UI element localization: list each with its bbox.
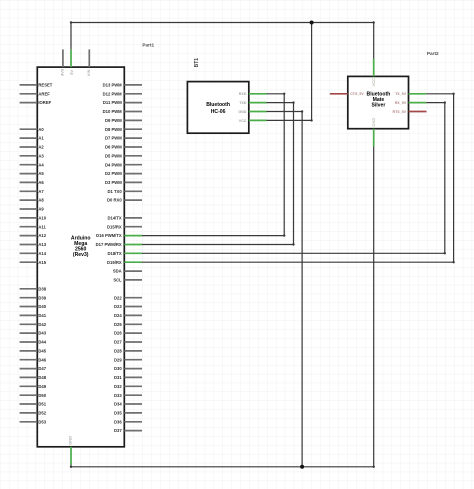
svg-text:D11 PWM: D11 PWM	[103, 100, 122, 105]
pin D11 PWM (Part1 right)	[103, 100, 142, 105]
pin A11 (Part1 left)	[20, 224, 47, 229]
svg-text:D29: D29	[114, 357, 122, 362]
svg-text:D45: D45	[38, 348, 46, 353]
svg-text:TX_5V: TX_5V	[395, 92, 407, 96]
pin SCL (Part1 right)	[113, 277, 142, 282]
wire net GND: Arduino GND pin down, right along bottom rail, up to Part2 GND	[70, 146, 375, 468]
svg-text:D28: D28	[114, 348, 122, 353]
pin D49 (Part1 left)	[20, 384, 47, 389]
pin D26 (Part1 right)	[114, 331, 142, 336]
wire Part2 RX_5V to Part1 D18/TX	[142, 101, 446, 254]
svg-text:D30: D30	[114, 366, 122, 371]
svg-text:D41: D41	[38, 313, 46, 318]
svg-text:D3 PWM: D3 PWM	[105, 180, 122, 185]
pin RXD (BT1)	[239, 92, 267, 96]
pin AREF (Part1 left)	[20, 91, 51, 96]
svg-text:D7 PWM: D7 PWM	[105, 136, 122, 141]
pin D18/TX (Part1 right)	[107, 251, 142, 256]
junction on GND rail at x=302.1	[300, 465, 304, 469]
pin 3V3 (Part1 top)	[60, 49, 65, 76]
svg-text:SDA: SDA	[113, 269, 122, 274]
pin D48 (Part1 left)	[20, 375, 47, 380]
svg-text:VCC: VCC	[239, 119, 247, 123]
svg-text:AREF: AREF	[38, 91, 50, 96]
pin A4 (Part1 left)	[20, 162, 45, 167]
pin A1 (Part1 left)	[20, 136, 45, 141]
svg-text:3V3: 3V3	[60, 68, 65, 76]
svg-text:D47: D47	[38, 366, 46, 371]
pin IOREF (Part1 left)	[20, 100, 52, 105]
wire BT1 VCC to 5V rail (up at x=311.6)	[267, 23, 313, 122]
pin A5 (Part1 left)	[20, 171, 45, 176]
svg-text:A10: A10	[38, 215, 46, 220]
pin D39 (Part1 left)	[20, 295, 47, 300]
svg-text:D22: D22	[114, 295, 122, 300]
svg-text:D19/RX: D19/RX	[107, 260, 122, 265]
pin D36 (Part1 right)	[114, 419, 142, 424]
pin D32 (Part1 right)	[114, 384, 142, 389]
pin A8 (Part1 left)	[20, 198, 45, 203]
pin D24 (Part1 right)	[114, 313, 142, 318]
pin D6 PWM (Part1 right)	[105, 145, 142, 150]
pin D12 PWM (Part1 right)	[103, 91, 142, 96]
svg-text:D33: D33	[114, 393, 122, 398]
pin D42 (Part1 left)	[20, 322, 47, 327]
pin D8 PWM (Part1 right)	[105, 127, 142, 132]
svg-text:A3: A3	[38, 153, 44, 158]
component BT1: Bluetooth HC-06	[187, 82, 266, 134]
svg-text:D23: D23	[114, 304, 122, 309]
svg-text:D37: D37	[114, 428, 122, 433]
pin SDA (Part1 right)	[113, 269, 142, 274]
pin TXD (BT1)	[239, 101, 266, 105]
svg-text:A1: A1	[38, 136, 44, 141]
wire net 5V: Arduino 5V pin up, right along top rail, down to Part2 VCC	[70, 21, 375, 58]
svg-text:D53: D53	[38, 419, 46, 424]
pin D1 TX0 (Part1 right)	[107, 189, 142, 194]
svg-text:SCL: SCL	[113, 277, 122, 282]
svg-text:D42: D42	[38, 322, 46, 327]
svg-text:D40: D40	[38, 304, 46, 309]
pin D2 PWM (Part1 right)	[105, 171, 142, 176]
svg-text:D14/TX: D14/TX	[107, 215, 121, 220]
svg-text:D13 PWM: D13 PWM	[103, 82, 123, 87]
svg-text:GND: GND	[68, 436, 73, 445]
svg-text:D38: D38	[38, 286, 46, 291]
svg-text:VCC: VCC	[371, 78, 376, 87]
svg-text:A14: A14	[38, 251, 46, 256]
pin D33 (Part1 right)	[114, 393, 142, 398]
svg-text:A9: A9	[38, 207, 44, 212]
pin D30 (Part1 right)	[114, 366, 142, 371]
wire Part2 TX_5V to Part1 D19/RX	[142, 93, 455, 264]
pin A15 (Part1 left)	[20, 260, 47, 265]
pin D43 (Part1 left)	[20, 331, 47, 336]
pin D5 PWM (Part1 right)	[105, 153, 142, 158]
svg-text:D24: D24	[114, 313, 122, 318]
pin A2 (Part1 left)	[20, 145, 45, 150]
pin D23 (Part1 right)	[114, 304, 142, 309]
pin A3 (Part1 left)	[20, 153, 45, 158]
svg-text:D43: D43	[38, 331, 46, 336]
pin D25 (Part1 right)	[114, 322, 142, 327]
svg-text:D25: D25	[114, 322, 122, 327]
pin D22 (Part1 right)	[114, 295, 142, 300]
pin VCC (Part2 top)	[371, 59, 376, 87]
svg-text:D4 PWM: D4 PWM	[105, 162, 122, 167]
svg-text:A11: A11	[38, 224, 46, 229]
svg-text:D51: D51	[38, 402, 46, 407]
svg-text:D15/RX: D15/RX	[107, 224, 122, 229]
svg-text:A12: A12	[38, 233, 46, 238]
svg-text:D50: D50	[38, 393, 46, 398]
svg-text:A15: A15	[38, 260, 46, 265]
wire BT1 GND down to GND rail (x=302.1)	[267, 110, 304, 467]
pin D38 (Part1 left)	[20, 286, 47, 291]
pin D50 (Part1 left)	[20, 393, 47, 398]
svg-text:RTS_5V: RTS_5V	[393, 110, 407, 114]
svg-text:RXD: RXD	[239, 92, 247, 96]
pin RTS_5V (Part2 right, unconnected)	[393, 110, 427, 114]
svg-text:D8 PWM: D8 PWM	[105, 127, 122, 132]
pin D44 (Part1 left)	[20, 340, 47, 345]
svg-text:D36: D36	[114, 419, 122, 424]
svg-text:CTS_5V: CTS_5V	[350, 92, 364, 96]
svg-text:A6: A6	[38, 180, 44, 185]
svg-text:VIN: VIN	[86, 69, 91, 76]
wire BT1 RXD to Part1 D16 PWM/TX	[142, 93, 285, 237]
pin GND (Part1 bottom)	[68, 436, 73, 465]
pin A14 (Part1 left)	[20, 251, 47, 256]
pin GND (Part2 bottom)	[371, 118, 376, 147]
pin D14/TX (Part1 right)	[107, 215, 142, 220]
pin A12 (Part1 left)	[20, 233, 47, 238]
svg-text:A4: A4	[38, 162, 44, 167]
svg-text:A13: A13	[38, 242, 46, 247]
svg-text:A8: A8	[38, 198, 44, 203]
pin D7 PWM (Part1 right)	[105, 136, 142, 141]
pin D15/RX (Part1 right)	[107, 224, 142, 229]
svg-text:D44: D44	[38, 340, 46, 345]
pin A7 (Part1 left)	[20, 189, 45, 194]
svg-text:A2: A2	[38, 145, 44, 150]
svg-text:D10 PWM: D10 PWM	[103, 109, 123, 114]
svg-text:D18/TX: D18/TX	[107, 251, 121, 256]
pin D47 (Part1 left)	[20, 366, 47, 371]
svg-text:Part1: Part1	[142, 42, 154, 47]
pin D51 (Part1 left)	[20, 402, 47, 407]
pin D53 (Part1 left)	[20, 419, 47, 424]
svg-text:D16 PWM/TX: D16 PWM/TX	[96, 233, 122, 238]
svg-text:D27: D27	[114, 340, 122, 345]
pin D37 (Part1 right)	[114, 428, 142, 433]
junction on 5V rail at x=311.6	[310, 21, 314, 25]
pin D34 (Part1 right)	[114, 402, 142, 407]
pin D41 (Part1 left)	[20, 313, 47, 318]
pin GND (BT1)	[238, 110, 266, 114]
svg-text:D17 PWM/RX: D17 PWM/RX	[96, 242, 122, 247]
pin D29 (Part1 right)	[114, 357, 142, 362]
svg-text:D5 PWM: D5 PWM	[105, 153, 122, 158]
svg-text:D26: D26	[114, 331, 122, 336]
pin RESET (Part1 left)	[20, 82, 53, 87]
svg-text:D46: D46	[38, 357, 46, 362]
pin D9 PWM (Part1 right)	[105, 118, 142, 123]
pin D35 (Part1 right)	[114, 410, 142, 415]
pin D17 PWM/RX (Part1 right)	[96, 242, 142, 247]
pin CTS_5V (Part2 left, unconnected)	[330, 92, 365, 96]
pin D52 (Part1 left)	[20, 410, 47, 415]
pin A10 (Part1 left)	[20, 215, 47, 220]
pin RX_5V (Part2 right)	[395, 101, 426, 105]
svg-text:BT1: BT1	[194, 58, 200, 68]
pin D40 (Part1 left)	[20, 304, 47, 309]
pin 5V (Part1 top)	[69, 49, 74, 74]
svg-text:D12 PWM: D12 PWM	[103, 91, 123, 96]
pin D3 PWM (Part1 right)	[105, 180, 142, 185]
pin D45 (Part1 left)	[20, 348, 47, 353]
svg-text:D1 TX0: D1 TX0	[107, 189, 122, 194]
svg-text:A7: A7	[38, 189, 44, 194]
svg-text:A0: A0	[38, 127, 44, 132]
pin D0 RX0 (Part1 right)	[107, 198, 142, 203]
svg-text:D34: D34	[114, 402, 122, 407]
pin VIN (Part1 top)	[86, 49, 91, 76]
pin D27 (Part1 right)	[114, 340, 142, 345]
svg-text:GND: GND	[371, 118, 376, 127]
pin TX_5V (Part2 right)	[395, 92, 426, 96]
Part1 body	[37, 67, 124, 447]
Part2 body	[348, 76, 409, 128]
component Part2: Bluetooth Mate Silver	[330, 59, 427, 147]
svg-text:D0 RX0: D0 RX0	[107, 198, 122, 203]
pin D10 PWM (Part1 right)	[103, 109, 142, 114]
svg-text:D2 PWM: D2 PWM	[105, 171, 122, 176]
pin A9 (Part1 left)	[20, 207, 45, 212]
pin D16 PWM/TX (Part1 right)	[96, 233, 142, 238]
svg-text:IOREF: IOREF	[38, 100, 51, 105]
svg-text:D49: D49	[38, 384, 46, 389]
svg-text:A5: A5	[38, 171, 44, 176]
wire BT1 TXD to Part1 D17 PWM/RX	[142, 101, 295, 245]
svg-text:D35: D35	[114, 410, 122, 415]
pin A0 (Part1 left)	[20, 127, 45, 132]
pin D31 (Part1 right)	[114, 375, 142, 380]
svg-text:5V: 5V	[69, 69, 74, 74]
component Part1: Arduino Mega 2560 (Rev3)	[20, 49, 142, 464]
svg-text:D6 PWM: D6 PWM	[105, 145, 122, 150]
pin VCC (BT1)	[239, 119, 267, 123]
pin D19/RX (Part1 right)	[107, 260, 142, 265]
svg-text:D31: D31	[114, 375, 122, 380]
svg-text:GND: GND	[238, 110, 246, 114]
pin D4 PWM (Part1 right)	[105, 162, 142, 167]
svg-text:D32: D32	[114, 384, 122, 389]
svg-text:D39: D39	[38, 295, 46, 300]
pin D28 (Part1 right)	[114, 348, 142, 353]
svg-text:Part2: Part2	[427, 51, 439, 56]
svg-text:RX_5V: RX_5V	[395, 101, 407, 105]
pin D13 PWM (Part1 right)	[103, 82, 142, 87]
svg-text:TXD: TXD	[239, 101, 247, 105]
pin A13 (Part1 left)	[20, 242, 47, 247]
svg-text:D48: D48	[38, 375, 46, 380]
svg-text:D52: D52	[38, 410, 46, 415]
BT1 body	[187, 82, 248, 134]
pin D46 (Part1 left)	[20, 357, 47, 362]
pin A6 (Part1 left)	[20, 180, 45, 185]
svg-text:D9 PWM: D9 PWM	[105, 118, 122, 123]
svg-text:RESET: RESET	[38, 82, 52, 87]
